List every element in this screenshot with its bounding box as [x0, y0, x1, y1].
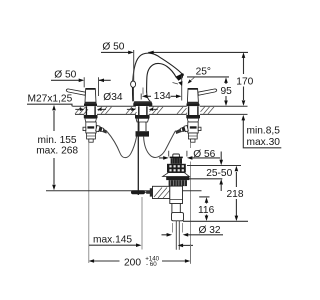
svg-text:M27x1,25: M27x1,25 [28, 93, 73, 104]
spout shank nut [135, 115, 150, 118]
pop-up lever rod [131, 191, 156, 193]
pop-up rod upper [133, 87, 135, 101]
svg-text:Ø 50: Ø 50 [102, 41, 124, 52]
waste plug cap [170, 156, 183, 158]
right handle escutcheon [186, 102, 199, 104]
right valve body [188, 122, 198, 133]
svg-text:max.145: max.145 [93, 234, 132, 245]
right handle shank through deck [189, 106, 198, 115]
spout inner curve [147, 63, 177, 92]
pop-up rod lower [137, 115, 139, 195]
spout outlet face [176, 74, 183, 78]
waste threaded section [169, 180, 187, 186]
dim Ø50 left: line and arrows [51, 79, 111, 81]
spout base bell [147, 92, 151, 102]
svg-text:min.8,5: min.8,5 [247, 126, 281, 137]
pop-up knob [131, 81, 136, 87]
right valve hex [188, 133, 197, 139]
waste skirt cone [163, 173, 190, 177]
spout shank tubes [139, 122, 146, 131]
svg-text:Ø 50: Ø 50 [54, 69, 76, 80]
svg-text:25°: 25° [196, 66, 211, 77]
left handle lever [66, 89, 85, 95]
svg-text:218: 218 [227, 189, 244, 200]
dim Ø50 top: line and arrows [101, 51, 248, 53]
waste tee [153, 186, 170, 198]
waste overflow ring [167, 164, 186, 173]
right handle lever [198, 89, 217, 95]
hose from left valve [107, 132, 137, 158]
svg-text:Ø 32: Ø 32 [199, 225, 221, 236]
spout hose nuts [136, 131, 150, 136]
right valve mounting nut [186, 115, 200, 118]
svg-text:min. 155: min. 155 [38, 135, 77, 146]
svg-text:170: 170 [236, 76, 253, 87]
right valve elbow [175, 125, 188, 133]
deck top line [72, 105, 247, 107]
left valve mounting nut [84, 115, 98, 118]
right supply extension line [190, 142, 192, 263]
left handle body [85, 89, 96, 103]
left valve body [86, 122, 96, 133]
svg-text:116: 116 [198, 205, 215, 216]
lever nut [146, 191, 151, 194]
left valve hex [87, 133, 96, 139]
svg-text:max. 268: max. 268 [36, 146, 78, 157]
waste plug stem [173, 154, 180, 158]
svg-text:max.30: max.30 [247, 137, 281, 148]
spout base escutcheon [133, 101, 152, 103]
spout inner shading line [142, 88, 144, 95]
hose from right valve [144, 131, 176, 158]
left handle shank through deck [86, 106, 95, 115]
deck hole arrows left handle [80, 108, 102, 111]
spout outer curve [132, 53, 182, 101]
left handle escutcheon [84, 102, 97, 104]
svg-text:134: 134 [154, 91, 171, 102]
waste tailpipe [172, 204, 180, 214]
deck hole arrows spout [131, 108, 153, 111]
spout shank through deck [139, 106, 147, 115]
waste body [170, 186, 183, 203]
svg-text:200: 200 [124, 257, 141, 268]
left supply extension line [88, 142, 90, 263]
deck hatch patches [75, 106, 214, 114]
bottom reference line [46, 190, 202, 192]
svg-text:Ø34: Ø34 [103, 92, 123, 103]
waste lower tube [176, 221, 179, 250]
lever clevis [131, 190, 145, 194]
waste end fitting [172, 213, 184, 221]
svg-text:- 60: - 60 [146, 261, 157, 268]
svg-text:25-50: 25-50 [206, 168, 232, 179]
left valve elbow [96, 125, 108, 133]
spout aerator tip [177, 75, 184, 81]
right handle body [187, 89, 198, 103]
svg-text:95: 95 [221, 86, 233, 97]
deck bottom line [75, 113, 248, 115]
